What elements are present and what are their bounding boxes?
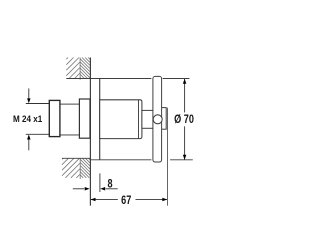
svg-text:Ø 70: Ø 70 <box>174 114 194 126</box>
svg-text:67: 67 <box>121 195 131 207</box>
svg-text:M 24 x1: M 24 x1 <box>13 114 42 125</box>
svg-text:8: 8 <box>108 179 113 191</box>
